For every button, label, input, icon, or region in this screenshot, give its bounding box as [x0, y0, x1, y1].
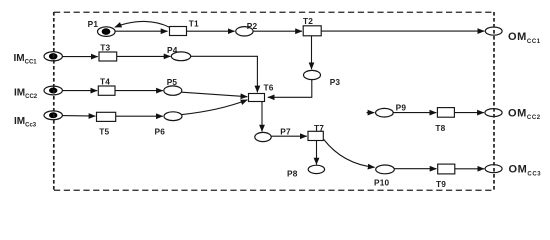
svg-text:T5: T5: [99, 126, 109, 136]
place P10: [376, 165, 395, 174]
wire stub into P9: [367, 112, 375, 114]
transition T7: [308, 131, 323, 140]
place P1: [98, 27, 116, 37]
wire T6 to P7: [261, 102, 263, 132]
place P5: [164, 86, 182, 95]
transition T5: [97, 112, 116, 121]
token in IM_CC3: [49, 112, 57, 118]
wire T9 to OM_CC3: [455, 168, 484, 170]
wire T7 to P10 (curved): [324, 140, 375, 168]
svg-text:P4: P4: [167, 45, 178, 55]
svg-text:IMCC2: IMCC2: [14, 88, 38, 101]
svg-text:P8: P8: [287, 169, 298, 179]
svg-text:P9: P9: [396, 103, 407, 113]
svg-text:T2: T2: [303, 16, 313, 26]
svg-text:OMCC1: OMCC1: [508, 31, 541, 45]
svg-text:P1: P1: [88, 19, 99, 29]
place OM_CC1: [485, 27, 502, 35]
wire T7 to P8: [316, 141, 318, 165]
transition T1: [170, 27, 187, 36]
wire P9 to T8: [393, 112, 436, 114]
wire T5 to P6: [116, 115, 163, 117]
wire P2 to T2: [253, 30, 302, 32]
dashed boundary box: [54, 12, 494, 190]
token in IM_CC1: [49, 53, 58, 59]
wire P7 to T7: [271, 135, 307, 137]
svg-text:T6: T6: [264, 83, 274, 93]
svg-text:T1: T1: [189, 19, 199, 29]
wire T4 to P5: [115, 90, 163, 92]
wire T1 to P1 (curved return arc): [115, 21, 170, 27]
token in IM_CC2: [49, 88, 57, 94]
wire T2 to P3: [311, 36, 313, 69]
place IM_CC3: [44, 111, 62, 120]
svg-text:P5: P5: [167, 77, 178, 87]
place P6: [164, 112, 182, 121]
token in P1: [102, 28, 111, 35]
wire IM_CC1 to T3: [62, 56, 98, 58]
wire T3 to P4: [117, 55, 171, 57]
transition T6: [249, 94, 265, 102]
svg-text:T8: T8: [435, 123, 445, 133]
transition T4: [98, 86, 115, 95]
place OM_CC3: [485, 165, 502, 173]
place P4: [171, 52, 190, 61]
place IM_CC2: [44, 86, 62, 95]
svg-text:P6: P6: [155, 127, 166, 137]
svg-text:P10: P10: [374, 178, 390, 188]
svg-text:T3: T3: [100, 43, 110, 53]
transition T8: [437, 108, 454, 118]
wire P4 to T6 (right angle): [191, 56, 258, 92]
svg-text:T9: T9: [436, 179, 446, 189]
transition T9: [438, 164, 455, 174]
wire P6 to T6 (slight curve): [182, 100, 247, 115]
wire IM_CC2 to T4: [62, 90, 97, 92]
svg-text:P3: P3: [330, 77, 341, 87]
wire T8 to OM_CC2: [454, 112, 484, 114]
svg-text:T7: T7: [314, 123, 324, 133]
wire T2 to OM_CC1: [321, 30, 484, 32]
place OM_CC2: [485, 109, 502, 117]
wire P5 to T6: [182, 92, 248, 97]
svg-text:OMCC2: OMCC2: [508, 108, 541, 122]
place P9: [376, 108, 394, 117]
place IM_CC1: [44, 52, 62, 61]
place P8: [308, 165, 324, 173]
wire IM_CC3 to T5: [62, 115, 95, 118]
transition T3: [99, 52, 117, 61]
place P2: [236, 27, 253, 36]
wire T1 to P2: [187, 30, 235, 32]
wire P1 to T1: [115, 30, 168, 32]
svg-text:P2: P2: [247, 21, 258, 31]
place P3: [304, 70, 321, 79]
svg-text:IMCC1: IMCC1: [14, 53, 38, 66]
wire P10 to T9: [394, 168, 436, 170]
svg-text:P7: P7: [280, 126, 291, 136]
svg-text:T4: T4: [100, 77, 110, 87]
wire P3 to T6: [268, 80, 312, 98]
svg-text:OMCC3: OMCC3: [509, 164, 542, 178]
place P7: [255, 132, 271, 141]
transition T2: [303, 26, 321, 36]
svg-text:IMCc3: IMCc3: [14, 116, 37, 129]
